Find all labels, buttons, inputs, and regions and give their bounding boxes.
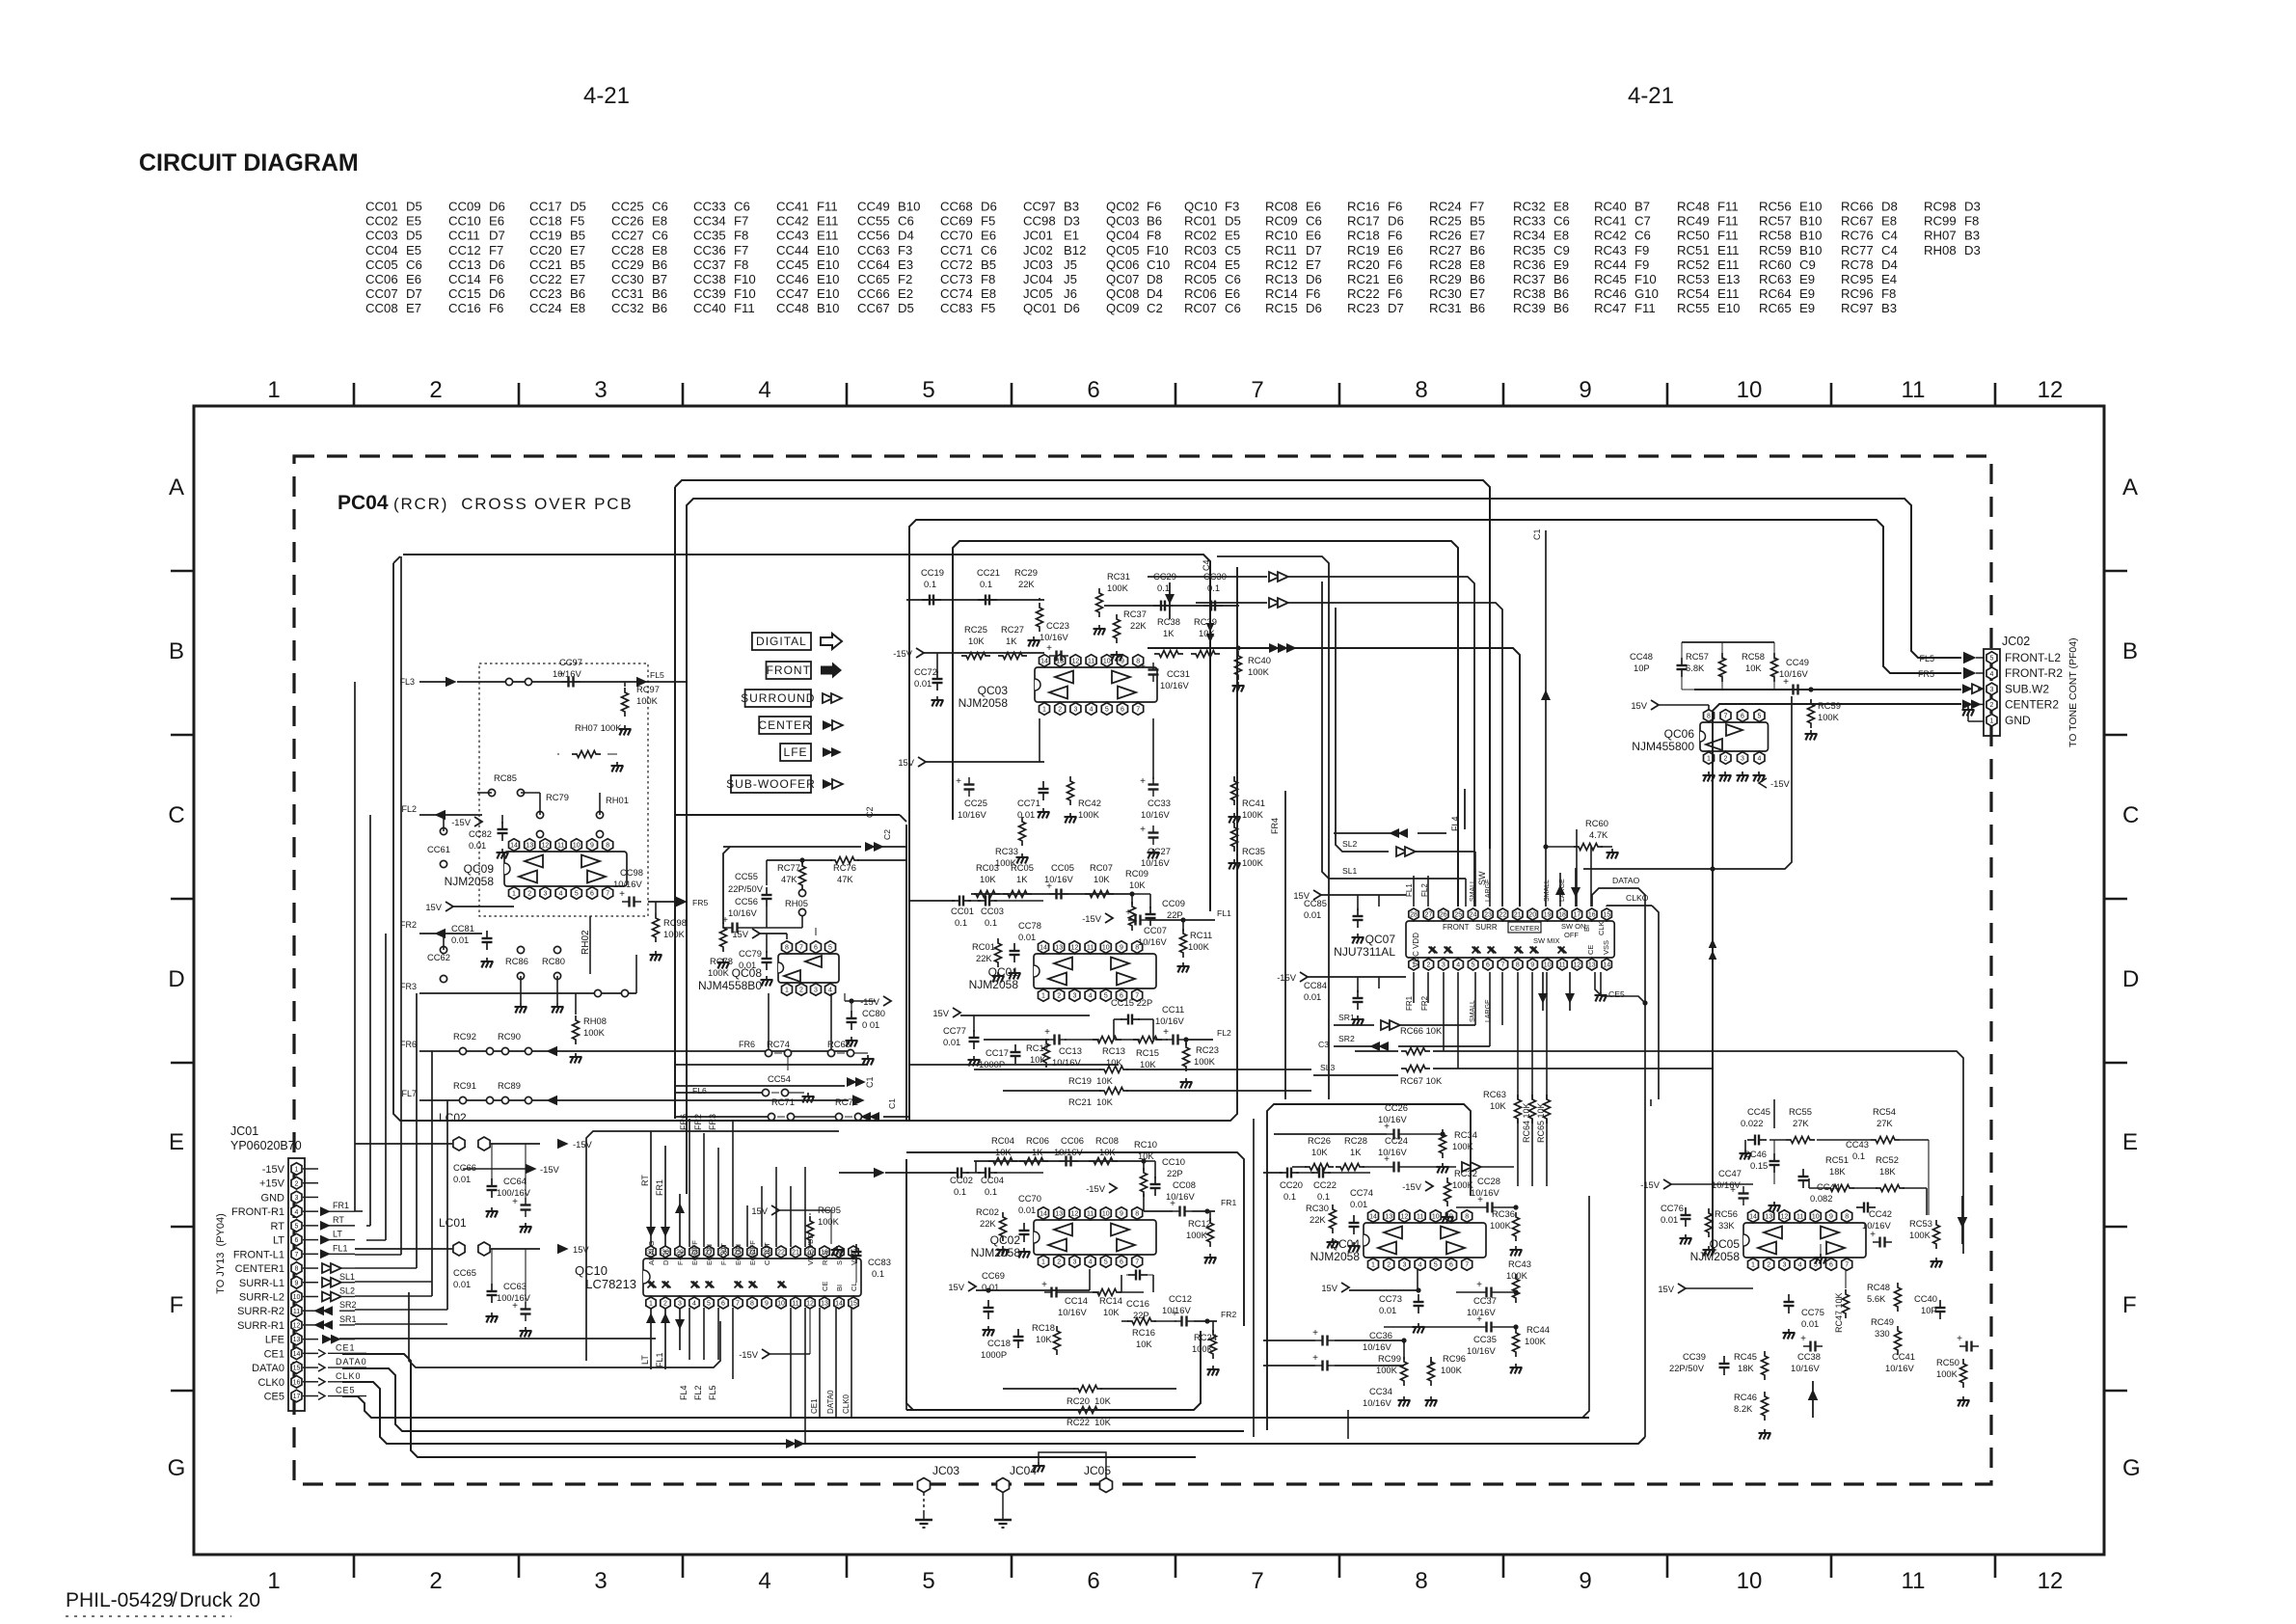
svg-text:0.01: 0.01 [1661,1214,1678,1225]
svg-text:C6: C6 [652,200,668,214]
svg-text:CC55: CC55 [857,214,890,229]
svg-text:0.01: 0.01 [943,1037,960,1047]
svg-text:RC43: RC43 [1594,243,1627,257]
svg-text:RH05: RH05 [785,898,808,908]
svg-text:EQOFF: EQOFF [690,1240,699,1265]
svg-text:JC04: JC04 [1023,272,1053,286]
svg-text:10/16V: 10/16V [1141,809,1170,820]
svg-text:QC08: QC08 [1106,286,1139,301]
component location table [365,200,1981,316]
svg-text:RC77: RC77 [777,862,800,873]
svg-text:5: 5 [575,891,579,898]
wire qc05 net1 [1773,1140,1775,1155]
wire bus CLK0 [342,1382,1645,1444]
svg-text:RC41: RC41 [1594,214,1627,229]
svg-text:CE1: CE1 [264,1348,284,1360]
svg-text:CC33: CC33 [1148,798,1171,808]
resistor RC20 [1073,1386,1102,1393]
svg-text:CC66: CC66 [857,286,890,301]
svg-text:+: + [1170,1199,1175,1209]
legend FRONT [767,662,812,679]
svg-text:0.01: 0.01 [914,678,932,689]
svg-text:B7: B7 [652,272,667,286]
svg-text:RC18: RC18 [1032,1322,1055,1333]
svg-text:330: 330 [1875,1328,1890,1339]
arrow bus1497 [786,1439,797,1448]
svg-text:CC19: CC19 [529,229,562,243]
diode qc04 out [1462,1162,1472,1172]
diode SW pair [1555,884,1565,895]
svg-text:RC92: RC92 [453,1031,476,1042]
svg-text:FL1: FL1 [1217,908,1231,918]
svg-text:BI: BI [1582,925,1591,932]
svg-text:FR1: FR1 [1221,1198,1236,1207]
svg-text:16: 16 [293,1379,301,1386]
svg-text:RC17: RC17 [1347,214,1380,229]
svg-text:CC64: CC64 [503,1176,527,1186]
svg-text:FR2: FR2 [693,1114,703,1130]
svg-text:RC71: RC71 [771,1096,795,1107]
svg-text:-15V: -15V [1082,913,1102,924]
svg-text:100K: 100K [1376,1365,1398,1375]
svg-text:E7: E7 [1306,257,1321,272]
JC01 pin arrows and net labels [320,1206,331,1216]
svg-text:8: 8 [785,945,789,952]
svg-text:28: 28 [1410,912,1418,919]
svg-text:RC76: RC76 [1841,229,1874,243]
diode qc05 [1958,1217,1968,1229]
svg-text:RC28: RC28 [1344,1135,1367,1146]
svg-text:E6: E6 [1388,243,1403,257]
wire sw mix link [1583,696,1792,869]
svg-text:CC65: CC65 [857,272,890,286]
svg-text:CC26: CC26 [611,214,644,229]
svg-text:RC66: RC66 [1841,200,1874,214]
svg-text:PC04: PC04 [338,492,389,514]
svg-text:RC59: RC59 [1759,243,1792,257]
svg-text:CC61: CC61 [427,844,450,854]
svg-text:0.01: 0.01 [453,1174,471,1184]
svg-text:10K: 10K [1140,1059,1156,1069]
svg-text:SURR-L2: SURR-L2 [239,1291,284,1303]
svg-text:DATAO: DATAO [1612,876,1640,885]
svg-text:SW: SW [1477,871,1487,885]
op-amp QC02 [971,1207,1156,1268]
svg-text:RC60: RC60 [1759,257,1792,272]
svg-text:RC79: RC79 [546,792,569,802]
svg-text:C: C [2122,802,2139,828]
svg-text:CC01: CC01 [951,906,974,916]
svg-text:B6: B6 [1470,272,1485,286]
svg-text:CC36: CC36 [1369,1330,1392,1340]
svg-text:10/16V: 10/16V [1862,1220,1891,1231]
svg-text:CC56: CC56 [735,896,758,907]
diode arrows B [1269,598,1280,608]
diode SL pair [1397,828,1408,838]
svg-text:E8: E8 [981,286,996,301]
svg-text:+: + [1140,662,1146,672]
svg-text:22: 22 [777,1250,785,1257]
svg-text:-15V: -15V [540,1164,560,1175]
svg-text:RC65 10K: RC65 10K [1536,1102,1546,1143]
svg-text:RC19: RC19 [1347,243,1380,257]
svg-text:E7: E7 [406,301,421,315]
svg-text:RC20 10K: RC20 10K [1067,1395,1112,1406]
svg-text:1000P: 1000P [981,1349,1007,1360]
wire qc05 top [1769,1139,1786,1141]
op-amp QC03 [959,655,1157,716]
svg-text:5: 5 [922,1568,934,1594]
svg-text:RC58: RC58 [1759,229,1792,243]
svg-text:RC48: RC48 [1867,1282,1890,1292]
svg-text:0.1: 0.1 [985,917,997,928]
svg-text:D6: D6 [489,286,505,301]
svg-text:RC52: RC52 [1677,257,1710,272]
svg-text:RC97: RC97 [1841,301,1874,315]
svg-text:CC07: CC07 [365,286,398,301]
svg-text:D6: D6 [489,200,505,214]
grounds qc06 [1708,771,1710,775]
svg-text:RC03: RC03 [1184,243,1217,257]
svg-text:CC21: CC21 [529,257,562,272]
svg-text:F10: F10 [734,286,756,301]
svg-text:E5: E5 [406,214,421,229]
wire qc07 bottom drops [1443,972,1445,1051]
svg-text:E10: E10 [1799,200,1822,214]
legend CENTER [759,717,811,734]
svg-text:FL6: FL6 [692,1086,707,1096]
svg-text:CC02: CC02 [365,214,398,229]
svg-text:19: 19 [1544,912,1552,919]
svg-text:CC13: CC13 [448,257,481,272]
svg-text:RC98: RC98 [1924,200,1957,214]
capacitor CC14 [1044,1291,1052,1293]
wire RC66 extend [1504,1051,1963,1254]
svg-text:+15V: +15V [259,1178,285,1190]
legend LFE [780,744,811,761]
svg-text:B6: B6 [1553,301,1569,315]
op-amp QC06 [1632,710,1768,765]
svg-text:F6: F6 [489,301,503,315]
svg-text:11: 11 [1417,1214,1423,1221]
svg-text:CC18: CC18 [529,214,562,229]
svg-text:4: 4 [758,1568,770,1594]
op-amp QC09 [445,839,627,900]
svg-text:3: 3 [594,1568,607,1594]
svg-text:CC01: CC01 [365,200,398,214]
wire qc01 top [974,893,1132,895]
svg-text:CC11: CC11 [1162,1004,1184,1015]
svg-text:E6: E6 [981,229,996,243]
svg-text:JC02: JC02 [1023,243,1053,257]
capacitor CC33 [1152,777,1154,785]
svg-text:12: 12 [1574,962,1581,969]
svg-text:F8: F8 [1881,286,1896,301]
svg-text:CC45: CC45 [776,257,809,272]
svg-text:E6: E6 [406,272,421,286]
svg-text:CC15 22P: CC15 22P [1111,997,1152,1008]
svg-text:CC98: CC98 [1023,214,1056,229]
resistor RC15 [1133,1037,1162,1043]
svg-text:CC39: CC39 [693,286,726,301]
svg-text:RC07: RC07 [1184,301,1217,315]
svg-text:C4: C4 [1881,243,1898,257]
svg-text:26: 26 [1440,912,1447,919]
svg-text:CLK0: CLK0 [257,1377,284,1389]
svg-text:C2: C2 [1147,301,1163,315]
svg-text:CC06: CC06 [1061,1135,1084,1146]
svg-text:E8: E8 [1470,257,1485,272]
svg-text:100K: 100K [1242,857,1264,868]
svg-text:FL1: FL1 [333,1243,348,1253]
svg-text:RC55: RC55 [1677,301,1710,315]
svg-text:100K: 100K [1186,1230,1208,1240]
svg-text:/: / [172,1589,177,1611]
svg-text:QC06: QC06 [1106,257,1139,272]
arrow mid1 [847,1077,857,1087]
svg-text:0.1: 0.1 [924,579,936,589]
svg-text:E7: E7 [570,243,585,257]
svg-text:0.1: 0.1 [1852,1150,1865,1161]
svg-text:QC07: QC07 [1365,933,1396,946]
svg-text:RC44: RC44 [1526,1324,1550,1335]
wire QC10 pins down [790,1308,792,1418]
svg-text:CC17: CC17 [529,200,562,214]
svg-text:4.7K: 4.7K [1589,829,1608,840]
svg-text:SMALL: SMALL [1470,880,1476,902]
svg-text:F7: F7 [734,243,748,257]
svg-text:0.01: 0.01 [739,960,756,970]
svg-text:2: 2 [429,1568,442,1594]
svg-text:0.1: 0.1 [955,917,967,928]
svg-text:CE1: CE1 [336,1342,356,1352]
svg-text:10K: 10K [1036,1334,1052,1344]
svg-text:4: 4 [828,988,832,994]
svg-text:5: 5 [922,377,934,403]
svg-text:18K: 18K [1829,1166,1846,1177]
svg-text:RC12: RC12 [1265,257,1298,272]
svg-text:+: + [1163,1027,1169,1038]
svg-text:FL4: FL4 [1450,816,1460,831]
op-amp QC04 [1310,1210,1486,1271]
svg-text:CC48: CC48 [1630,651,1653,662]
svg-text:CC74: CC74 [1350,1187,1373,1198]
svg-text:CC97: CC97 [1023,200,1056,214]
svg-text:B5: B5 [981,257,996,272]
svg-text:22P/50V: 22P/50V [1669,1363,1705,1373]
svg-text:RC51: RC51 [1677,243,1710,257]
svg-text:+: + [619,889,625,900]
svg-text:17: 17 [293,1394,301,1400]
svg-text:12: 12 [1071,1211,1079,1218]
svg-text:RC05: RC05 [1011,862,1034,873]
svg-text:RC06: RC06 [1184,286,1217,301]
svg-text:B10: B10 [1799,243,1822,257]
svg-text:CC80: CC80 [862,1008,885,1018]
svg-text:RC49: RC49 [1677,214,1710,229]
svg-text:13: 13 [1055,945,1063,952]
svg-text:20: 20 [1528,912,1536,919]
svg-text:RC63: RC63 [1759,272,1792,286]
svg-text:22K: 22K [1130,620,1147,631]
svg-text:RC67 10K: RC67 10K [1400,1075,1443,1086]
svg-text:RC23: RC23 [1196,1044,1219,1055]
svg-text:RC35: RC35 [1513,243,1546,257]
svg-text:RC03: RC03 [976,862,999,873]
svg-text:E10: E10 [1717,301,1740,315]
svg-text:-15V: -15V [739,1349,759,1360]
svg-text:CC55: CC55 [735,871,758,881]
svg-text:CC69: CC69 [982,1270,1005,1281]
svg-text:FR1: FR1 [655,1179,664,1196]
svg-text:B10: B10 [898,200,920,214]
svg-text:2: 2 [1724,756,1728,763]
svg-text:6: 6 [590,891,594,898]
svg-text:D5: D5 [1225,214,1241,229]
svg-text:RC99: RC99 [1378,1353,1401,1364]
svg-text:2: 2 [1990,702,1994,709]
svg-text:CC28: CC28 [611,243,644,257]
capacitor CC38 [1803,1345,1811,1347]
svg-text:0.022: 0.022 [1741,1118,1763,1128]
svg-text:D6: D6 [981,200,997,214]
svg-text:RC21 10K: RC21 10K [1068,1096,1114,1107]
svg-text:14: 14 [293,1351,301,1358]
svg-text:10: 10 [1737,1568,1763,1594]
svg-text:E7: E7 [1470,229,1485,243]
svg-text:RC24: RC24 [1429,200,1462,214]
svg-text:10/16V: 10/16V [1141,857,1170,868]
svg-text:D5: D5 [406,200,422,214]
svg-text:D8: D8 [1147,272,1163,286]
svg-text:RC26: RC26 [1308,1135,1331,1146]
wire box QC09 block [393,563,1237,1121]
svg-text:RC19 10K: RC19 10K [1068,1075,1114,1086]
svg-text:J5: J5 [1064,272,1077,286]
svg-text:RC90: RC90 [498,1031,521,1042]
svg-text:RC42: RC42 [1078,798,1101,808]
svg-text:CC14: CC14 [448,272,481,286]
svg-text:6: 6 [1121,707,1124,714]
svg-text:6: 6 [1087,1568,1099,1594]
svg-text:8: 8 [1135,1211,1139,1218]
wire lfe line [355,1338,656,1340]
svg-text:10: 10 [1737,377,1763,403]
svg-text:RC54: RC54 [1873,1106,1896,1117]
svg-text:RC26: RC26 [1429,229,1462,243]
wire FR4 bundle verticals [1217,556,1329,1099]
svg-text:E5: E5 [1225,229,1240,243]
svg-text:B6: B6 [652,301,667,315]
svg-text:RC31: RC31 [1429,301,1462,315]
svg-text:LFE: LFE [265,1335,284,1346]
svg-text:1K: 1K [1350,1147,1362,1157]
svg-text:JC02: JC02 [2002,635,2030,648]
svg-text:7: 7 [1251,1568,1263,1594]
svg-text:2: 2 [1767,1262,1770,1269]
svg-text:FR5: FR5 [692,898,708,907]
svg-text:RC37: RC37 [1513,272,1546,286]
svg-text:E9: E9 [1799,286,1815,301]
svg-text:FRONT: FRONT [767,663,811,677]
svg-text:100K: 100K [1490,1220,1512,1231]
svg-text:CC63: CC63 [857,243,890,257]
svg-text:+: + [956,776,961,787]
svg-text:1: 1 [295,1167,299,1174]
arrows qc10 bot [646,1313,656,1323]
svg-text:QC03: QC03 [978,684,1009,697]
svg-text:CC49: CC49 [857,200,890,214]
DSP IC QC10 [575,1232,861,1309]
svg-text:9: 9 [1120,945,1123,952]
wires fl bundle [689,1308,690,1360]
svg-text:F5: F5 [981,214,995,229]
svg-text:RC34: RC34 [1454,1129,1477,1140]
svg-text:RC43: RC43 [1508,1259,1531,1269]
resistor RC22 [1073,1407,1102,1414]
svg-text:RC45: RC45 [1594,272,1627,286]
svg-text:NJM2058: NJM2058 [971,1246,1021,1259]
svg-text:5: 5 [828,945,832,952]
svg-text:100K: 100K [663,929,686,939]
svg-text:RC08: RC08 [1095,1135,1119,1146]
svg-text:1: 1 [1041,1259,1045,1266]
svg-text:D4: D4 [1881,257,1898,272]
svg-text:9: 9 [1530,962,1534,969]
svg-text:E7: E7 [570,272,585,286]
svg-text:RC36: RC36 [1513,257,1546,272]
svg-text:4: 4 [1418,1262,1422,1269]
svg-text:CC46: CC46 [776,272,809,286]
svg-text:100K: 100K [1441,1365,1463,1375]
svg-text:CC39: CC39 [1683,1351,1706,1362]
svg-text:4: 4 [1990,671,1994,678]
svg-text:CC62: CC62 [427,952,450,962]
svg-text:22P: 22P [1167,1168,1183,1178]
svg-text:RC49: RC49 [1871,1316,1894,1327]
svg-text:7: 7 [1465,1262,1469,1269]
svg-text:JC01: JC01 [230,1124,258,1138]
svg-text:FL2: FL2 [693,1385,703,1400]
svg-text:DIGI: DIGI [662,1251,670,1265]
svg-text:F8: F8 [734,229,748,243]
svg-text:6: 6 [1449,1262,1453,1269]
svg-text:CC21: CC21 [977,567,1000,578]
svg-text:E10: E10 [817,243,839,257]
svg-text:CC08: CC08 [1173,1179,1196,1190]
svg-text:9: 9 [1829,1214,1833,1221]
svg-text:F11: F11 [817,200,838,214]
svg-text:+: + [1477,1195,1483,1205]
svg-text:FRONT-L1: FRONT-L1 [233,1249,284,1260]
svg-text:CC79: CC79 [739,948,762,959]
svg-text:RC78: RC78 [1841,257,1874,272]
svg-text:CC12: CC12 [448,243,481,257]
svg-text:CC83: CC83 [940,301,973,315]
svg-text:14: 14 [1749,1214,1757,1221]
svg-text:QC07: QC07 [1106,272,1139,286]
svg-text:100K: 100K [1818,712,1840,722]
svg-text:CC05: CC05 [1051,862,1074,873]
svg-text:RC50: RC50 [1677,229,1710,243]
svg-text:1: 1 [1042,707,1046,714]
svg-text:+: + [1476,1314,1482,1325]
svg-text:F6: F6 [1147,200,1161,214]
svg-text:LT: LT [640,1355,650,1365]
svg-text:100K: 100K [1909,1230,1931,1240]
svg-text:10P: 10P [1921,1305,1937,1315]
wire bus DATA0 [342,1368,1244,1431]
